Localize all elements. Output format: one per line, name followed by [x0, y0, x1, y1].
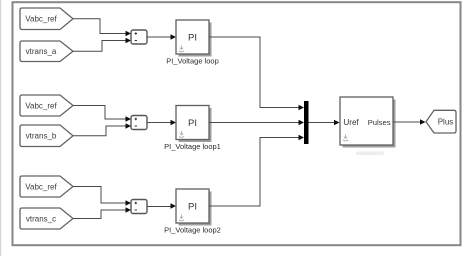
- svg-text:Pulses: Pulses: [368, 118, 391, 127]
- svg-text:vtrans_a: vtrans_a: [26, 47, 57, 56]
- svg-text:Plus: Plus: [438, 118, 454, 127]
- wire sum1 to PI1: [147, 34, 176, 40]
- label PI_Voltage loop: [166, 57, 219, 66]
- PI subsystem block PI_Voltage loop2: [176, 189, 212, 226]
- mux: [304, 101, 309, 144]
- label PI_Voltage loop1: [164, 142, 221, 151]
- svg-text:vtrans_b: vtrans_b: [26, 132, 57, 141]
- wire PI2 to mux input 2: [209, 120, 304, 126]
- svg-text:vtrans_c: vtrans_c: [26, 214, 56, 223]
- wire vtrans_b to sum2 - input: [73, 123, 131, 136]
- sum block S1: [131, 30, 147, 44]
- inport tag Vabc_ref (row 1): [20, 8, 73, 30]
- svg-text:Vabc_ref: Vabc_ref: [25, 182, 57, 191]
- svg-text:PI: PI: [188, 201, 197, 212]
- label PI_Voltage loop2: [164, 226, 221, 235]
- PI subsystem block PI_Voltage loop: [176, 20, 212, 57]
- wire PI1 to mux input 1: [209, 37, 304, 110]
- svg-text:Vabc_ref: Vabc_ref: [25, 101, 57, 110]
- inport tag vtrans_b: [20, 125, 73, 147]
- inport tag Vabc_ref (row 2): [20, 95, 73, 116]
- wire PI3 to mux input 3: [209, 135, 304, 206]
- svg-text:Uref: Uref: [344, 118, 360, 127]
- inport tag Vabc_ref (row 3): [20, 176, 73, 197]
- wire sum3 to PI3: [147, 203, 176, 209]
- svg-text:PI_Voltage loop1: PI_Voltage loop1: [164, 142, 221, 151]
- sum block S3: [131, 200, 147, 214]
- inport tag vtrans_c: [20, 208, 73, 229]
- wire sum2 to PI2: [147, 120, 176, 126]
- wire vtrans_c to sum3 - input: [73, 207, 131, 218]
- faint label under PWM generator: [356, 152, 384, 156]
- wire Vabc_ref to sum3 + input: [73, 187, 131, 206]
- PI subsystem block PI_Voltage loop1: [176, 106, 212, 143]
- wire mux to PWM generator: [309, 120, 340, 126]
- outport tag Plus: [426, 110, 456, 133]
- svg-text:PI_Voltage loop: PI_Voltage loop: [166, 57, 219, 66]
- wire vtrans_a to sum1 - input: [73, 38, 131, 52]
- PWM generator subsystem block U1 (Uref/Pulses): [340, 97, 396, 148]
- sum block S2: [131, 116, 147, 130]
- svg-text:PI_Voltage loop2: PI_Voltage loop2: [164, 226, 221, 235]
- wire Vabc_ref to sum2 + input: [73, 106, 131, 122]
- svg-text:PI: PI: [188, 118, 197, 129]
- svg-text:PI: PI: [188, 32, 197, 43]
- wire Vabc_ref to sum1 + input: [73, 19, 131, 37]
- inport tag vtrans_a: [20, 41, 73, 62]
- wire PWM generator to outport tag: [393, 119, 426, 125]
- svg-text:Vabc_ref: Vabc_ref: [25, 15, 57, 24]
